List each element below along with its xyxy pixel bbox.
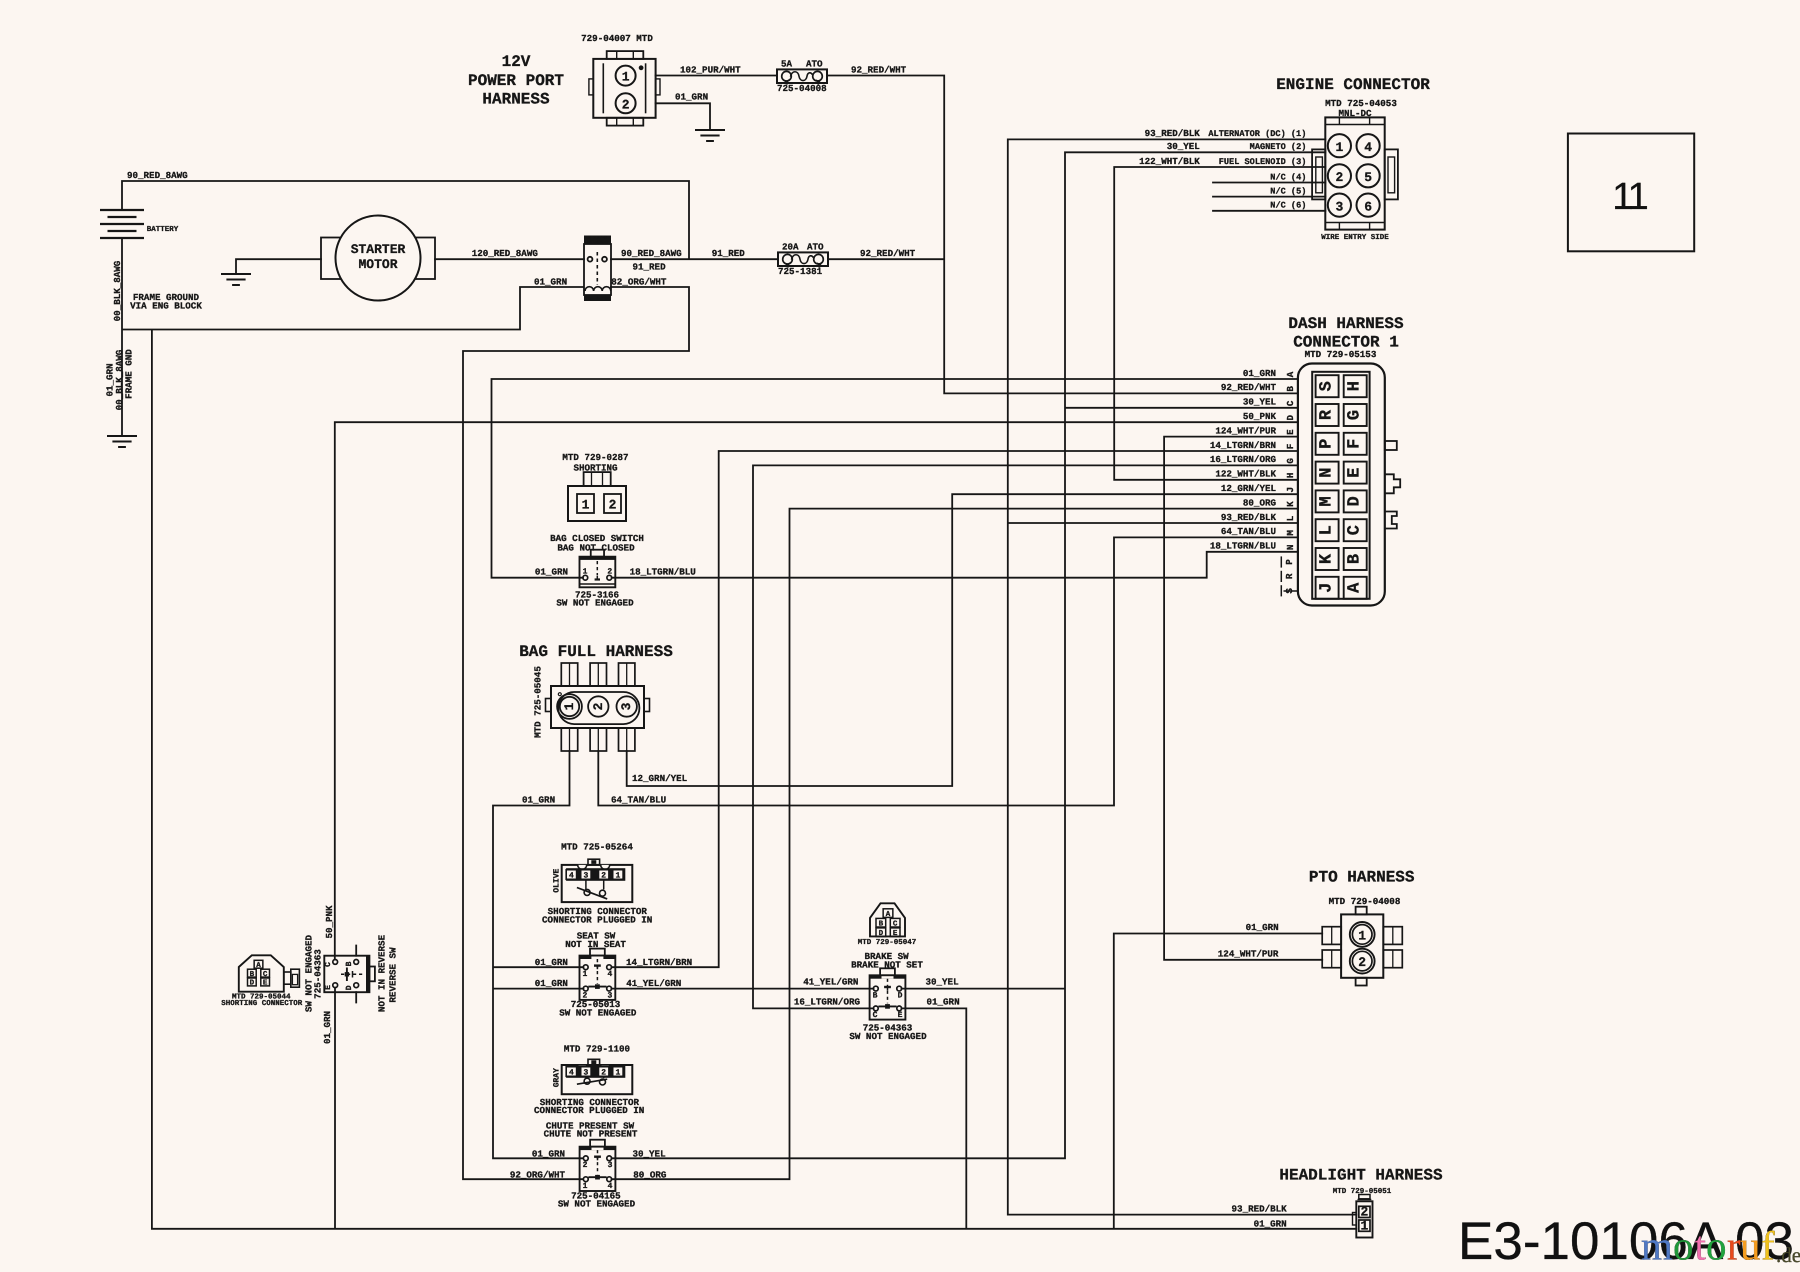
svg-text:01_GRN: 01_GRN bbox=[322, 1011, 333, 1044]
svg-text:J: J bbox=[1318, 583, 1337, 593]
svg-text:1: 1 bbox=[1358, 928, 1366, 943]
svg-text:E: E bbox=[263, 980, 268, 988]
svg-text:FRAME GND: FRAME GND bbox=[123, 349, 134, 399]
svg-text:MTD 725-05264: MTD 725-05264 bbox=[561, 842, 633, 853]
svg-text:1: 1 bbox=[615, 872, 620, 881]
svg-text:BAG FULL HARNESS: BAG FULL HARNESS bbox=[519, 643, 673, 661]
svg-text:729-04007 MTD: 729-04007 MTD bbox=[581, 33, 653, 44]
svg-text:S: S bbox=[1318, 381, 1337, 391]
svg-text:01_GRN: 01_GRN bbox=[535, 978, 568, 989]
svg-text:91_RED: 91_RED bbox=[633, 262, 667, 273]
svg-text:N: N bbox=[1285, 545, 1296, 551]
svg-text:2: 2 bbox=[1358, 955, 1366, 970]
svg-text:MTD 729-05153: MTD 729-05153 bbox=[1305, 349, 1377, 360]
svg-text:41_YEL/GRN: 41_YEL/GRN bbox=[626, 978, 681, 989]
svg-text:124_WHT/PUR: 124_WHT/PUR bbox=[1218, 949, 1279, 960]
svg-text:D: D bbox=[879, 930, 884, 938]
svg-text:2: 2 bbox=[591, 702, 606, 710]
svg-text:E: E bbox=[1285, 429, 1296, 435]
svg-text:L: L bbox=[1285, 515, 1296, 521]
svg-text:MTD 729-05047: MTD 729-05047 bbox=[858, 938, 917, 947]
svg-text:N/C (6): N/C (6) bbox=[1270, 201, 1306, 211]
svg-text:64_TAN/BLU: 64_TAN/BLU bbox=[611, 795, 666, 806]
svg-text:D: D bbox=[898, 991, 903, 1000]
svg-text:D: D bbox=[1285, 414, 1296, 420]
svg-text:80_ORG: 80_ORG bbox=[1243, 497, 1277, 508]
svg-text:01_GRN: 01_GRN bbox=[1246, 922, 1279, 933]
svg-text:30_YEL: 30_YEL bbox=[1243, 397, 1277, 408]
svg-text:122_WHT/BLK: 122_WHT/BLK bbox=[1215, 469, 1276, 480]
svg-text:725-04105: 725-04105 bbox=[585, 296, 610, 302]
svg-text:3: 3 bbox=[608, 1161, 613, 1170]
svg-text:E: E bbox=[898, 1011, 903, 1020]
svg-text:GRAY: GRAY bbox=[552, 1068, 561, 1087]
svg-text:f: f bbox=[1761, 1223, 1775, 1269]
svg-text:BAG NOT CLOSED: BAG NOT CLOSED bbox=[557, 543, 635, 554]
svg-text:m: m bbox=[1641, 1223, 1673, 1269]
svg-text:01_GRN: 01_GRN bbox=[927, 996, 960, 1007]
svg-text:MTD 729-0287: MTD 729-0287 bbox=[562, 452, 628, 463]
svg-text:5: 5 bbox=[1364, 170, 1372, 185]
svg-text:1: 1 bbox=[615, 1069, 620, 1078]
svg-text:B: B bbox=[345, 961, 354, 966]
svg-text:MAGNETO (2): MAGNETO (2) bbox=[1250, 142, 1307, 152]
svg-text:S: S bbox=[1284, 588, 1295, 594]
svg-text:F: F bbox=[1285, 444, 1296, 450]
svg-text:E: E bbox=[893, 930, 898, 938]
svg-text:30_YEL: 30_YEL bbox=[633, 1149, 667, 1160]
svg-text:C: C bbox=[1346, 525, 1365, 535]
svg-text:92_RED/WHT: 92_RED/WHT bbox=[1221, 382, 1277, 393]
svg-text:01_GRN: 01_GRN bbox=[1243, 368, 1276, 379]
svg-text:CONNECTOR PLUGGED IN: CONNECTOR PLUGGED IN bbox=[534, 1105, 644, 1116]
svg-text:90_RED_8AWG: 90_RED_8AWG bbox=[127, 170, 188, 181]
svg-text:30_YEL: 30_YEL bbox=[1167, 141, 1201, 152]
svg-text:3: 3 bbox=[619, 702, 634, 710]
svg-text:CHUTE NOT PRESENT: CHUTE NOT PRESENT bbox=[544, 1129, 638, 1140]
svg-text:80_ORG: 80_ORG bbox=[633, 1170, 667, 1181]
svg-text:1: 1 bbox=[583, 568, 588, 577]
svg-text:16_LTGRN/ORG: 16_LTGRN/ORG bbox=[1210, 454, 1277, 465]
svg-text:P: P bbox=[1318, 439, 1337, 449]
svg-text:82_ORG/WHT: 82_ORG/WHT bbox=[611, 276, 667, 287]
svg-text:16_LTGRN/ORG: 16_LTGRN/ORG bbox=[794, 996, 861, 1007]
svg-text:N/C (4): N/C (4) bbox=[1270, 172, 1306, 182]
svg-text:C: C bbox=[873, 1011, 878, 1020]
svg-text:H: H bbox=[1285, 473, 1296, 479]
svg-text:20A: 20A bbox=[782, 242, 799, 253]
svg-text:01_GRN: 01_GRN bbox=[532, 1149, 565, 1160]
svg-text:B: B bbox=[1285, 386, 1296, 392]
svg-text:J: J bbox=[1285, 487, 1296, 493]
svg-text:t: t bbox=[1695, 1223, 1707, 1269]
svg-text:NOT IN REVERSE: NOT IN REVERSE bbox=[376, 934, 387, 1012]
svg-text:E: E bbox=[324, 985, 333, 990]
svg-text:SW NOT ENGAGED: SW NOT ENGAGED bbox=[556, 598, 634, 609]
svg-text:91_RED: 91_RED bbox=[712, 248, 746, 259]
svg-text:ATO: ATO bbox=[807, 242, 824, 253]
svg-text:N: N bbox=[1318, 467, 1337, 477]
svg-text:14_LTGRN/BRN: 14_LTGRN/BRN bbox=[1210, 440, 1276, 451]
svg-text:B: B bbox=[873, 991, 878, 1000]
svg-text:4: 4 bbox=[607, 970, 612, 979]
svg-text:41_YEL/GRN: 41_YEL/GRN bbox=[803, 977, 858, 988]
svg-text:93_RED/BLK: 93_RED/BLK bbox=[1221, 512, 1277, 523]
svg-text:L: L bbox=[1318, 525, 1337, 535]
svg-text:90_RED_8AWG: 90_RED_8AWG bbox=[621, 248, 682, 259]
svg-text:PTO HARNESS: PTO HARNESS bbox=[1309, 869, 1415, 887]
svg-text:A: A bbox=[1346, 582, 1365, 593]
svg-text:1: 1 bbox=[582, 498, 590, 513]
svg-text:F: F bbox=[1346, 439, 1365, 449]
svg-text:64_TAN/BLU: 64_TAN/BLU bbox=[1221, 526, 1276, 537]
svg-text:FUEL SOLENOID (3): FUEL SOLENOID (3) bbox=[1219, 157, 1307, 167]
svg-text:MTD 729-1100: MTD 729-1100 bbox=[564, 1044, 630, 1055]
svg-text:MOTOR: MOTOR bbox=[358, 257, 397, 272]
svg-text:SOLENOID: SOLENOID bbox=[586, 240, 608, 246]
svg-text:G: G bbox=[1285, 458, 1296, 464]
svg-text:2: 2 bbox=[609, 498, 617, 513]
svg-text:01_GRN: 01_GRN bbox=[535, 957, 568, 968]
svg-text:u: u bbox=[1740, 1223, 1761, 1269]
svg-text:3: 3 bbox=[583, 872, 588, 881]
svg-text:4: 4 bbox=[569, 1069, 574, 1078]
svg-text:SW NOT ENGAGED: SW NOT ENGAGED bbox=[558, 1199, 636, 1210]
svg-text:ALTERNATOR (DC) (1): ALTERNATOR (DC) (1) bbox=[1208, 129, 1306, 139]
svg-text:2: 2 bbox=[583, 1161, 588, 1170]
svg-text:E: E bbox=[1346, 467, 1365, 477]
svg-text:B: B bbox=[1346, 554, 1365, 564]
svg-text:K: K bbox=[1285, 501, 1296, 507]
svg-text:2: 2 bbox=[601, 1069, 606, 1078]
svg-text:01_GRN: 01_GRN bbox=[522, 795, 555, 806]
svg-text:1: 1 bbox=[562, 702, 577, 710]
svg-text:ATO: ATO bbox=[806, 59, 823, 70]
svg-text:00_BLK_8AWG: 00_BLK_8AWG bbox=[112, 260, 123, 321]
svg-text:12V: 12V bbox=[502, 53, 531, 71]
svg-text:CONNECTOR PLUGGED IN: CONNECTOR PLUGGED IN bbox=[542, 915, 652, 926]
svg-text:18_LTGRN/BLU: 18_LTGRN/BLU bbox=[1210, 541, 1276, 552]
svg-text:K: K bbox=[1318, 553, 1337, 564]
svg-text:5A: 5A bbox=[781, 59, 793, 70]
svg-text:2: 2 bbox=[1335, 170, 1343, 185]
svg-text:4: 4 bbox=[569, 872, 574, 881]
svg-text:D: D bbox=[345, 985, 354, 990]
svg-text:1: 1 bbox=[582, 970, 587, 979]
svg-text:50_PNK: 50_PNK bbox=[324, 905, 335, 939]
svg-text:H: H bbox=[1346, 381, 1365, 391]
svg-text:102_PUR/WHT: 102_PUR/WHT bbox=[680, 65, 741, 76]
svg-text:.de: .de bbox=[1776, 1243, 1800, 1267]
svg-text:01_GRN: 01_GRN bbox=[535, 566, 568, 577]
svg-text:WIRE ENTRY SIDE: WIRE ENTRY SIDE bbox=[1321, 233, 1389, 242]
svg-text:2: 2 bbox=[622, 97, 630, 112]
svg-text:11: 11 bbox=[1612, 176, 1647, 218]
svg-text:725-1381: 725-1381 bbox=[778, 266, 823, 277]
svg-text:MTD 725-05045: MTD 725-05045 bbox=[533, 666, 544, 738]
svg-text:D: D bbox=[1346, 496, 1365, 506]
svg-text:VIA ENG BLOCK: VIA ENG BLOCK bbox=[130, 301, 202, 312]
svg-text:r: r bbox=[1727, 1223, 1741, 1269]
svg-text:30_YEL: 30_YEL bbox=[926, 977, 960, 988]
svg-text:2: 2 bbox=[1360, 1205, 1368, 1220]
svg-text:122_WHT/BLK: 122_WHT/BLK bbox=[1139, 156, 1200, 167]
svg-text:POWER PORT: POWER PORT bbox=[468, 72, 564, 90]
svg-text:M: M bbox=[1318, 496, 1337, 506]
svg-text:ENGINE CONNECTOR: ENGINE CONNECTOR bbox=[1276, 76, 1430, 94]
svg-text:2: 2 bbox=[607, 568, 612, 577]
svg-text:01_GRN: 01_GRN bbox=[1254, 1218, 1287, 1229]
svg-text:92_ORG/WHT: 92_ORG/WHT bbox=[510, 1170, 566, 1181]
svg-text:C: C bbox=[324, 962, 333, 967]
svg-text:o: o bbox=[1673, 1223, 1694, 1269]
svg-text:DASH HARNESS: DASH HARNESS bbox=[1288, 315, 1404, 333]
svg-text:1: 1 bbox=[622, 70, 630, 85]
svg-text:SHORTING CONNECTOR: SHORTING CONNECTOR bbox=[221, 999, 303, 1008]
svg-text:18_LTGRN/BLU: 18_LTGRN/BLU bbox=[630, 566, 696, 577]
svg-text:4: 4 bbox=[1364, 140, 1372, 155]
svg-text:o: o bbox=[1706, 1223, 1727, 1269]
svg-text:12_GRN/YEL: 12_GRN/YEL bbox=[1221, 483, 1277, 494]
svg-text:HARNESS: HARNESS bbox=[482, 91, 550, 109]
svg-text:14_LTGRN/BRN: 14_LTGRN/BRN bbox=[626, 957, 692, 968]
svg-text:725-04008: 725-04008 bbox=[777, 83, 827, 94]
svg-text:2: 2 bbox=[601, 872, 606, 881]
svg-text:12_GRN/YEL: 12_GRN/YEL bbox=[632, 773, 688, 784]
svg-text:MTD 729-04008: MTD 729-04008 bbox=[1329, 896, 1401, 907]
svg-text:3: 3 bbox=[583, 1069, 588, 1078]
svg-text:OLIVE: OLIVE bbox=[552, 869, 561, 893]
svg-text:D: D bbox=[250, 980, 255, 988]
svg-text:120_RED_8AWG: 120_RED_8AWG bbox=[472, 248, 539, 259]
svg-text:STARTER: STARTER bbox=[351, 242, 406, 257]
svg-text:C: C bbox=[1285, 400, 1296, 406]
svg-text:M: M bbox=[1285, 530, 1296, 536]
svg-text:SW NOT ENGAGED: SW NOT ENGAGED bbox=[849, 1031, 927, 1042]
svg-text:R: R bbox=[1284, 573, 1295, 579]
svg-text:A: A bbox=[1285, 371, 1296, 377]
svg-text:93_RED/BLK: 93_RED/BLK bbox=[1145, 128, 1201, 139]
svg-text:REVERSE SW: REVERSE SW bbox=[387, 947, 398, 1003]
svg-text:92_RED/WHT: 92_RED/WHT bbox=[860, 248, 916, 259]
svg-text:6: 6 bbox=[1364, 199, 1372, 214]
svg-text:124_WHT/PUR: 124_WHT/PUR bbox=[1215, 425, 1276, 436]
svg-text:93_RED/BLK: 93_RED/BLK bbox=[1232, 1204, 1288, 1215]
svg-text:SW NOT ENGAGED: SW NOT ENGAGED bbox=[559, 1008, 637, 1019]
svg-text:R: R bbox=[1318, 409, 1337, 420]
svg-text:BATTERY: BATTERY bbox=[147, 226, 179, 234]
svg-text:1: 1 bbox=[1335, 140, 1343, 155]
svg-text:HEADLIGHT HARNESS: HEADLIGHT HARNESS bbox=[1279, 1167, 1443, 1185]
svg-text:3: 3 bbox=[1335, 199, 1343, 214]
svg-text:1: 1 bbox=[1360, 1218, 1368, 1233]
svg-text:01_GRN: 01_GRN bbox=[675, 92, 708, 103]
svg-text:N/C (5): N/C (5) bbox=[1270, 186, 1306, 196]
svg-text:92_RED/WHT: 92_RED/WHT bbox=[851, 65, 907, 76]
svg-text:G: G bbox=[1346, 410, 1365, 420]
svg-text:725-04363: 725-04363 bbox=[313, 949, 324, 999]
svg-text:50_PNK: 50_PNK bbox=[1243, 411, 1277, 422]
svg-text:P: P bbox=[1284, 559, 1295, 565]
svg-text:01_GRN: 01_GRN bbox=[534, 276, 567, 287]
